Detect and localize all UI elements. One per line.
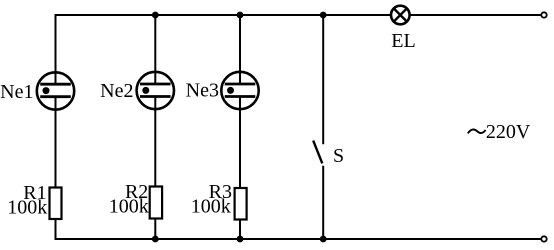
wire branch3 upper <box>239 15 241 84</box>
wire branch1 upper <box>55 14 57 84</box>
switch S blade <box>313 141 322 164</box>
lamp EL cross <box>394 9 406 21</box>
node top branch3 <box>237 12 244 19</box>
node bottom branch3 <box>237 236 244 243</box>
resistor R3 <box>235 188 247 220</box>
neon lamp Ne2 circle <box>137 72 174 109</box>
node top branch2 <box>152 12 159 19</box>
node top switch branch <box>320 12 327 19</box>
neon lamp Ne3 dot <box>227 87 234 94</box>
svg-text:S: S <box>333 145 344 167</box>
terminal bottom right <box>541 236 546 241</box>
svg-text:Ne1: Ne1 <box>0 81 33 103</box>
wire branch1 mid <box>55 97 57 188</box>
svg-text:Ne2: Ne2 <box>100 80 133 102</box>
terminal top right <box>541 12 546 17</box>
neon lamp Ne3 circle <box>221 72 258 109</box>
wire branch3 mid <box>239 97 241 189</box>
svg-text:100k: 100k <box>109 196 149 218</box>
wire switch branch lower <box>322 166 324 239</box>
lamp EL circle <box>391 6 410 25</box>
wire switch branch upper <box>322 15 324 144</box>
wire bottom horizontal <box>56 238 541 240</box>
neon lamp Ne2 plates <box>140 83 171 86</box>
node bottom branch2 <box>152 236 159 243</box>
svg-text:100k: 100k <box>191 196 231 218</box>
svg-text:220V: 220V <box>486 121 531 143</box>
svg-text:EL: EL <box>391 30 415 52</box>
wire top horizontal <box>56 14 392 16</box>
resistor R1 <box>50 188 62 220</box>
node bottom switch branch <box>320 236 327 243</box>
wire branch2 upper <box>154 15 156 84</box>
neon lamp Ne3 plates <box>225 83 256 86</box>
neon lamp Ne1 dot <box>43 87 50 94</box>
source tilde symbol <box>468 129 486 133</box>
resistor R2 <box>150 187 162 219</box>
neon lamp Ne1 circle <box>37 72 74 109</box>
neon lamp Ne2 dot <box>142 87 149 94</box>
wire branch2 lower <box>154 219 156 240</box>
svg-text:Ne3: Ne3 <box>186 80 219 102</box>
wire branch3 lower <box>239 220 241 240</box>
neon lamp Ne1 plates <box>40 83 71 86</box>
wire branch1 lower <box>55 219 57 240</box>
wire top right of EL <box>410 14 541 16</box>
wire branch2 mid <box>154 97 156 188</box>
svg-text:100k: 100k <box>7 197 47 219</box>
